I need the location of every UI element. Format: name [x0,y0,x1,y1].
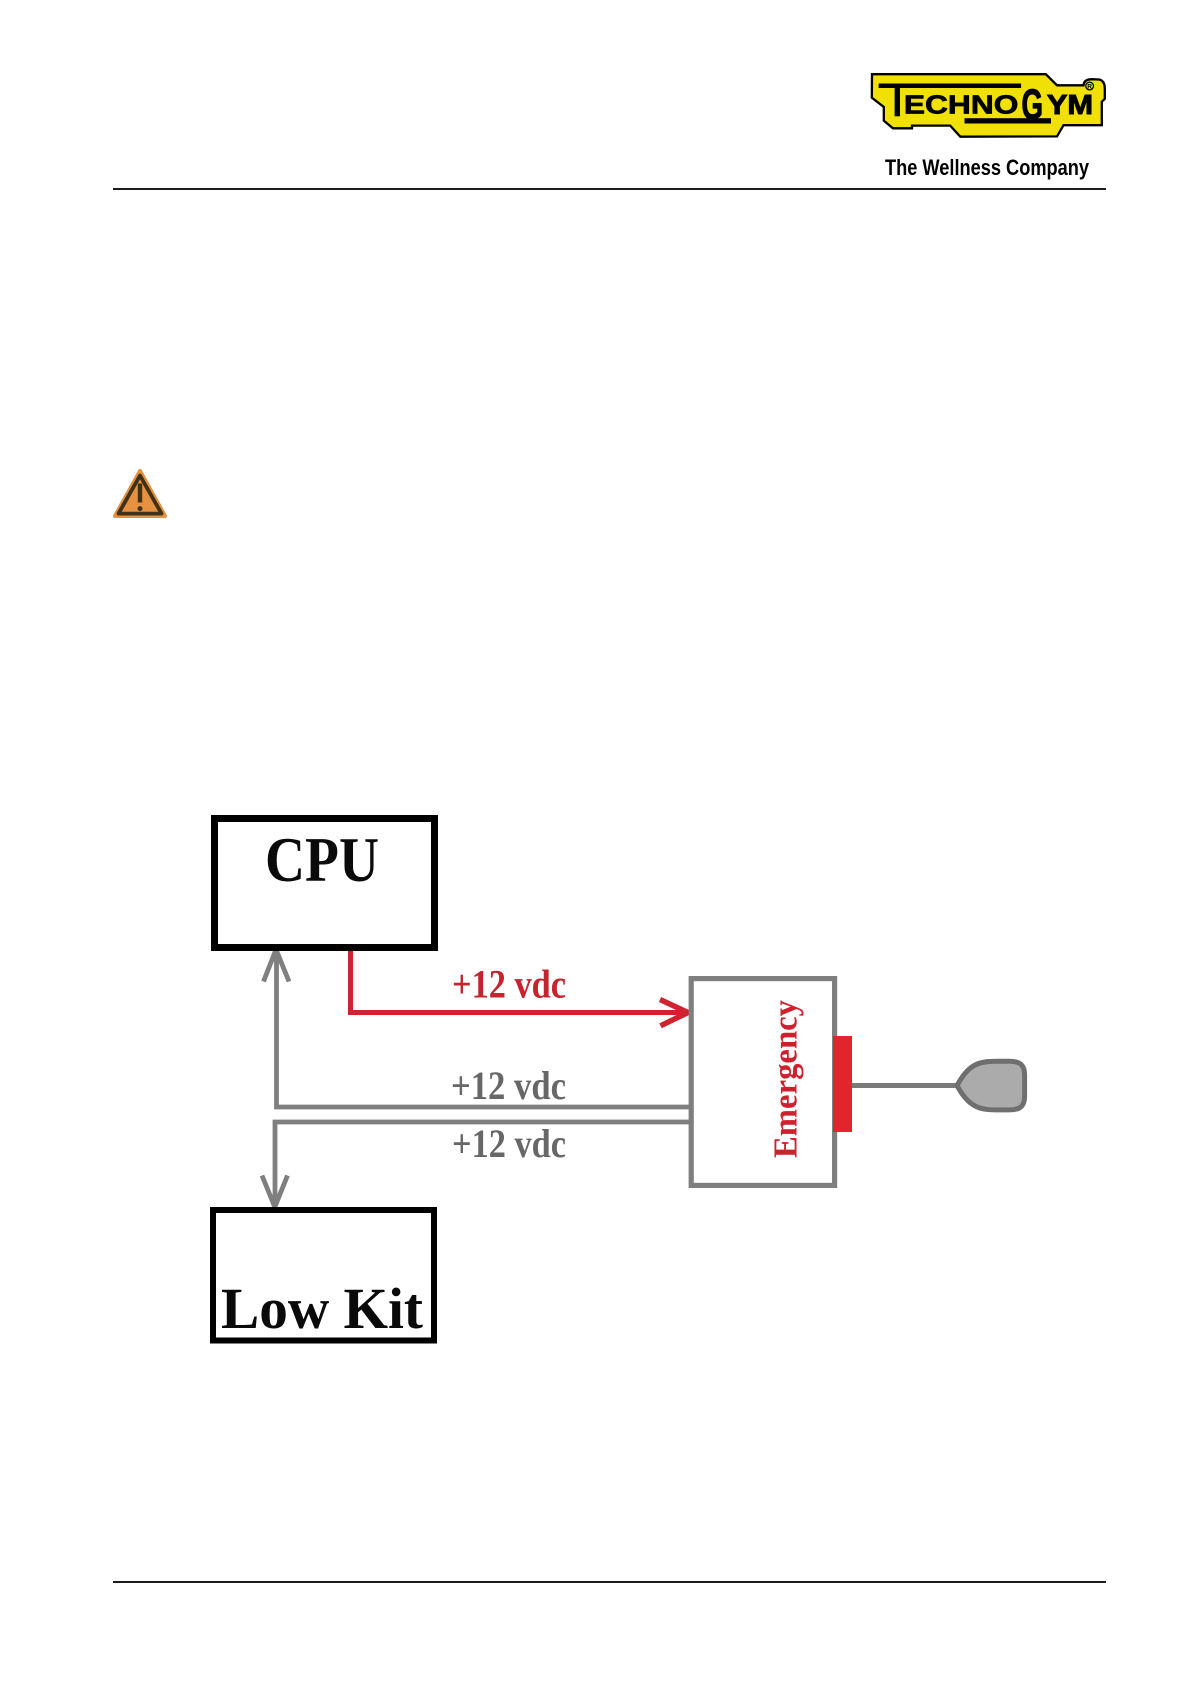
svg-text:CPU: CPU [265,824,379,895]
svg-text:+12 vdc: +12 vdc [452,1121,566,1166]
arrowhead red into Emergency [660,1000,688,1026]
block Emergency switch [691,979,834,1186]
warning triangle icon [105,462,175,526]
header rule [113,188,1106,190]
Technogym logo [860,65,1115,150]
svg-text:ECHNO: ECHNO [904,89,1019,119]
svg-text:R: R [1087,84,1092,91]
svg-text:Low Kit: Low Kit [221,1276,424,1341]
block CPU [215,819,435,948]
logo T stem [895,88,900,116]
block Low Kit [213,1210,434,1341]
svg-text:The Wellness Company: The Wellness Company [885,155,1090,180]
key shaft wire [852,1083,958,1088]
logo top bar (T crossbar) [879,84,1022,89]
registered trademark symbol [1086,82,1094,90]
logo bottom underline bar [965,118,1052,123]
wire: gray Emergency-LowKit horizontal+vertical [275,1122,691,1204]
arrowhead down into Low Kit [262,1176,288,1208]
svg-text:+12 vdc: +12 vdc [452,962,566,1007]
wire: red +12vdc CPU to Emergency [351,951,684,1013]
footer rule [113,1581,1106,1583]
svg-text:Emergency: Emergency [768,1000,805,1158]
wiring diagram [0,790,1191,1390]
emergency red button bar [833,1036,852,1132]
wire: gray CPU-Emergency vertical+horizontal [277,952,692,1107]
logo yellow plate [872,74,1105,137]
svg-text:+12 vdc: +12 vdc [451,1063,566,1108]
key head [957,1061,1025,1110]
svg-text:YM: YM [1047,89,1093,120]
The Wellness Company tagline [880,152,1100,184]
arrowhead up into CPU [264,950,290,982]
